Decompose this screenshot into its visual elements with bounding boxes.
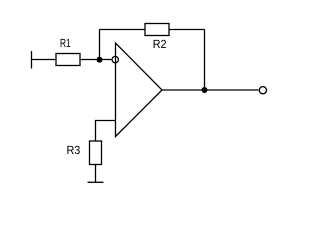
label R3 (67, 146, 79, 154)
wire non-inverting input (96, 121, 116, 142)
node inverting input junction (97, 57, 103, 63)
wire R3 to ground (95, 165, 97, 183)
ground (88, 181, 104, 183)
op-amp triangle (116, 43, 163, 137)
input terminal (31, 51, 33, 69)
resistor R3 (90, 141, 102, 165)
op-amp inverting input bubble (112, 56, 118, 62)
label R1 (61, 39, 71, 47)
wire op-amp output (162, 89, 259, 91)
output terminal (259, 87, 266, 94)
label R2 (154, 40, 166, 48)
node output junction (202, 87, 208, 93)
wire junction up to feedback (99, 30, 101, 60)
wire R1 to inverting input node (80, 59, 112, 61)
wire R2 to right corner (169, 29, 205, 31)
wire input terminal to R1 (32, 59, 57, 61)
wire feedback top left to R2 (100, 29, 146, 31)
wire feedback right down to output (204, 30, 206, 91)
resistor R2 (145, 24, 169, 36)
resistor R1 (56, 54, 80, 66)
